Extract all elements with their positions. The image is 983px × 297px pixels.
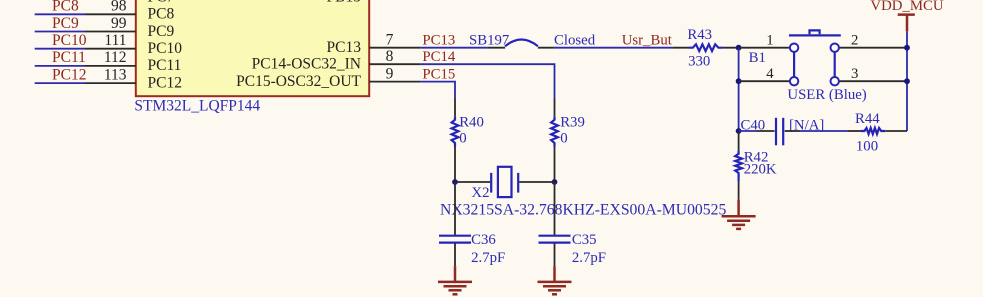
svg-text:PC10: PC10 — [52, 32, 87, 49]
pin 111 PC10 — [85, 32, 136, 49]
resistor R42 top pin — [738, 131, 740, 150]
capacitor C40 left pin — [757, 130, 775, 132]
junction crystal left — [452, 179, 458, 185]
svg-text:USER (Blue): USER (Blue) — [787, 87, 866, 103]
junction node A top — [736, 45, 742, 51]
svg-text:PC14-OSC32_IN: PC14-OSC32_IN — [252, 56, 361, 73]
svg-text:0: 0 — [459, 131, 466, 147]
svg-text:220K: 220K — [744, 162, 777, 178]
svg-text:R39: R39 — [560, 115, 585, 131]
capacitor C36 bottom pin — [454, 244, 456, 267]
svg-text:PC11: PC11 — [148, 57, 182, 74]
svg-text:99: 99 — [111, 15, 127, 32]
pin 9 PC15 — [369, 65, 420, 82]
crystal X2 left pin — [455, 181, 490, 183]
junction crystal right — [552, 179, 558, 185]
svg-text:Closed: Closed — [554, 32, 596, 48]
crystal X2 body — [440, 167, 726, 219]
junction VDD pin3 row — [904, 78, 910, 84]
svg-text:R44: R44 — [855, 111, 880, 127]
svg-text:PC9: PC9 — [148, 23, 175, 40]
resistor R40 bottom pin — [454, 147, 456, 183]
resistor R44 right pin — [885, 130, 907, 132]
wire Usr_But — [554, 47, 673, 49]
svg-text:C36: C36 — [471, 232, 496, 248]
button B1 pin 1 — [739, 32, 790, 48]
svg-text:3: 3 — [851, 66, 858, 82]
svg-text:1: 1 — [766, 32, 773, 48]
IC U5 STM32L_LQFP144 body — [134, 0, 369, 115]
resistor R40 body — [452, 115, 484, 147]
ground below C36 — [438, 266, 472, 294]
svg-text:SB197: SB197 — [469, 32, 509, 48]
crystal X2 right pin — [519, 181, 554, 183]
svg-text:2.7pF: 2.7pF — [572, 250, 606, 266]
ground below R42 — [722, 200, 756, 229]
svg-text:7: 7 — [386, 31, 394, 48]
pin 112 PC11 — [85, 49, 136, 66]
wire node A to C40 — [739, 130, 757, 132]
capacitor C35 plates — [539, 232, 607, 266]
svg-text:98: 98 — [111, 0, 127, 15]
wire PC15 to R40 column — [420, 82, 455, 99]
button B1 pin 2 — [839, 32, 907, 48]
pin 99 PC9 — [85, 15, 136, 32]
svg-text:B1: B1 — [749, 50, 766, 66]
svg-text:VDD_MCU: VDD_MCU — [870, 0, 943, 14]
svg-text:Usr_But: Usr_But — [622, 32, 673, 48]
svg-text:PC9: PC9 — [52, 15, 79, 32]
svg-text:112: 112 — [104, 49, 127, 66]
wire net PC9 — [35, 31, 85, 33]
svg-text:PC13: PC13 — [327, 39, 362, 56]
button B1 contacts and actuator — [789, 30, 841, 85]
svg-text:X2: X2 — [471, 185, 489, 201]
svg-text:330: 330 — [688, 53, 710, 69]
capacitor C35 bottom pin — [554, 244, 556, 267]
wire PC14 to R39 column — [420, 64, 554, 99]
resistor R42 body — [735, 149, 777, 181]
resistor R43 right pin — [722, 47, 738, 49]
svg-text:2: 2 — [851, 32, 858, 48]
svg-text:PC12: PC12 — [148, 74, 182, 91]
wire VDD vertical — [906, 31, 908, 131]
resistor R44 left pin — [848, 130, 860, 132]
junction node A pin4 row — [736, 78, 742, 84]
svg-text:111: 111 — [104, 32, 126, 49]
svg-text:PC10: PC10 — [148, 40, 183, 57]
capacitor C40 right pin — [785, 130, 800, 132]
wire net PC10 — [35, 48, 85, 50]
svg-text:PC13: PC13 — [422, 32, 455, 48]
svg-text:100: 100 — [856, 139, 878, 155]
svg-text:C40: C40 — [741, 117, 766, 133]
svg-text:C35: C35 — [572, 232, 597, 248]
svg-text:8: 8 — [386, 48, 394, 65]
svg-text:PC12: PC12 — [52, 66, 86, 83]
svg-text:R40: R40 — [459, 115, 484, 131]
wire net PC11 — [35, 65, 85, 67]
svg-text:0: 0 — [560, 131, 567, 147]
svg-text:PC15-OSC32_OUT: PC15-OSC32_OUT — [236, 73, 361, 90]
wire net PC8 — [35, 13, 85, 15]
ground below C35 — [538, 266, 572, 294]
capacitor C35 top pin — [554, 182, 556, 235]
capacitor C36 plates — [439, 232, 505, 266]
pin 113 PC12 — [85, 66, 136, 83]
junction VDD pin2 row — [904, 45, 910, 51]
resistor R39 bottom pin — [554, 147, 556, 183]
wire PC13 to SB197 — [420, 47, 487, 49]
svg-text:113: 113 — [104, 66, 127, 83]
pin 7 PC13 — [369, 31, 420, 48]
power port VDD_MCU — [870, 0, 943, 31]
svg-text:9: 9 — [386, 65, 394, 82]
resistor R39 body — [551, 115, 585, 147]
wire node A vertical — [738, 48, 740, 131]
wire net PC12 — [35, 82, 85, 84]
svg-text:2.7pF: 2.7pF — [471, 250, 505, 266]
svg-text:NX3215SA-32.768KHZ-EXS00A-MU00: NX3215SA-32.768KHZ-EXS00A-MU00525 — [440, 201, 726, 218]
pin 8 PC14 — [369, 48, 420, 65]
svg-text:PC8: PC8 — [148, 6, 175, 23]
resistor R42 bottom pin — [738, 181, 740, 200]
svg-text:PC8: PC8 — [52, 0, 79, 15]
solder bridge SB197 arc — [505, 40, 538, 47]
resistor R44 body — [855, 111, 885, 155]
wire C40 to R44 — [800, 130, 848, 132]
pin 98 PC8 — [85, 0, 136, 15]
svg-text:PC14: PC14 — [422, 49, 455, 65]
svg-text:PC11: PC11 — [52, 49, 86, 66]
solder bridge SB197 left pin — [488, 47, 506, 49]
button B1 pin 4 — [739, 66, 790, 82]
svg-text:R43: R43 — [687, 27, 712, 43]
capacitor C40 plates — [741, 117, 825, 145]
button B1 pin 3 — [839, 66, 907, 82]
svg-text:STM32L_LQFP144: STM32L_LQFP144 — [134, 98, 260, 115]
solder bridge SB197 right pin — [538, 47, 554, 49]
resistor R43 left pin — [673, 47, 689, 49]
junction node A C40 row — [736, 128, 742, 134]
svg-text:PC15: PC15 — [422, 66, 455, 82]
resistor R43 body — [687, 27, 722, 70]
svg-text:PB15: PB15 — [327, 0, 362, 5]
svg-text:PC7: PC7 — [148, 0, 175, 5]
resistor R39 top pin — [554, 99, 556, 116]
resistor R40 top pin — [454, 99, 456, 116]
svg-text:4: 4 — [766, 66, 774, 82]
capacitor C36 top pin — [454, 182, 456, 235]
